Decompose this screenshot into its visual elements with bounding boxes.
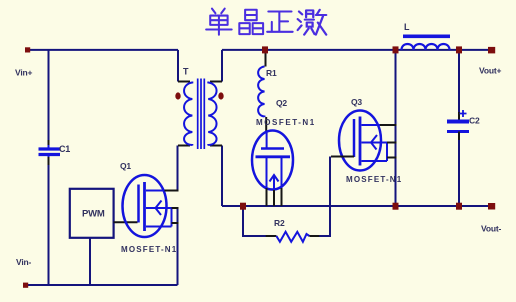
svg-text:Q3: Q3 — [351, 97, 362, 107]
inductor L — [402, 22, 451, 50]
capacitor C2 (polarized) — [447, 110, 480, 140]
wire transformer left top column — [177, 50, 179, 82]
svg-text:T: T — [183, 67, 189, 77]
wire transformer right top column — [221, 50, 223, 82]
wire secondary bottom bus — [222, 205, 490, 207]
terminal Vin+ — [25, 47, 30, 52]
wire C1 column lower — [48, 165, 50, 285]
transformer polarity dot left — [175, 92, 180, 99]
wire C2 column upper — [458, 50, 460, 112]
svg-text:MOSFET-N1: MOSFET-N1 — [346, 175, 402, 184]
svg-text:Vout-: Vout- — [481, 224, 501, 234]
svg-text:Vin-: Vin- — [16, 257, 31, 267]
transformer T — [178, 67, 222, 150]
junction C2 bottom — [456, 203, 462, 210]
svg-text:R1: R1 — [266, 68, 277, 78]
wire C1 column upper — [48, 50, 50, 140]
mosfet Q1 — [120, 161, 179, 254]
svg-text:Q2: Q2 — [276, 98, 287, 108]
svg-text:PWM: PWM — [82, 209, 105, 220]
terminal Vout+ — [488, 47, 495, 54]
wire PWM bottom pin — [89, 238, 91, 285]
junction R2 branch — [240, 203, 246, 210]
transformer polarity dot right — [218, 92, 223, 99]
mosfet Q3 — [331, 97, 402, 184]
svg-text:R2: R2 — [274, 218, 285, 228]
terminal Vout- — [488, 203, 495, 210]
svg-text:C2: C2 — [469, 116, 480, 126]
pwm controller box U1 — [70, 189, 138, 238]
svg-text:Vout+: Vout+ — [479, 66, 501, 76]
junction L left — [393, 46, 399, 53]
wire top-right rail to Vout+ — [222, 49, 490, 51]
mosfet Q2 (rotated, gate on top) — [252, 98, 315, 206]
svg-text:MOSFET-N1: MOSFET-N1 — [256, 118, 315, 127]
capacitor C1 — [39, 140, 71, 165]
svg-text:C1: C1 — [59, 144, 70, 154]
resistor R2 — [266, 218, 320, 242]
junction L right / C2 top — [456, 46, 462, 53]
resistor R1 — [258, 51, 277, 132]
wire top-left Vin+ rail — [27, 49, 178, 51]
svg-text:Q1: Q1 — [120, 161, 131, 171]
junction Q3 bus — [393, 203, 399, 210]
terminal Vin- — [23, 283, 28, 288]
title 单晶正激 — [206, 9, 326, 35]
wire Q3 pin column — [395, 50, 397, 206]
svg-text:L: L — [404, 22, 410, 32]
wire Q1 source down to bottom rail — [177, 208, 179, 285]
wire transformer left bottom to Q1 drain — [177, 146, 179, 191]
wire R2 right to Q3 gate — [319, 157, 330, 237]
wire R2 left branch — [243, 206, 266, 236]
wire bottom Vin- rail — [25, 284, 178, 286]
wire transformer right bottom to bus — [221, 146, 223, 207]
svg-text:MOSFET-N1: MOSFET-N1 — [121, 245, 177, 254]
junction R1 top — [262, 46, 268, 53]
wire C2 column lower — [458, 140, 460, 206]
svg-text:Vin+: Vin+ — [15, 68, 32, 78]
